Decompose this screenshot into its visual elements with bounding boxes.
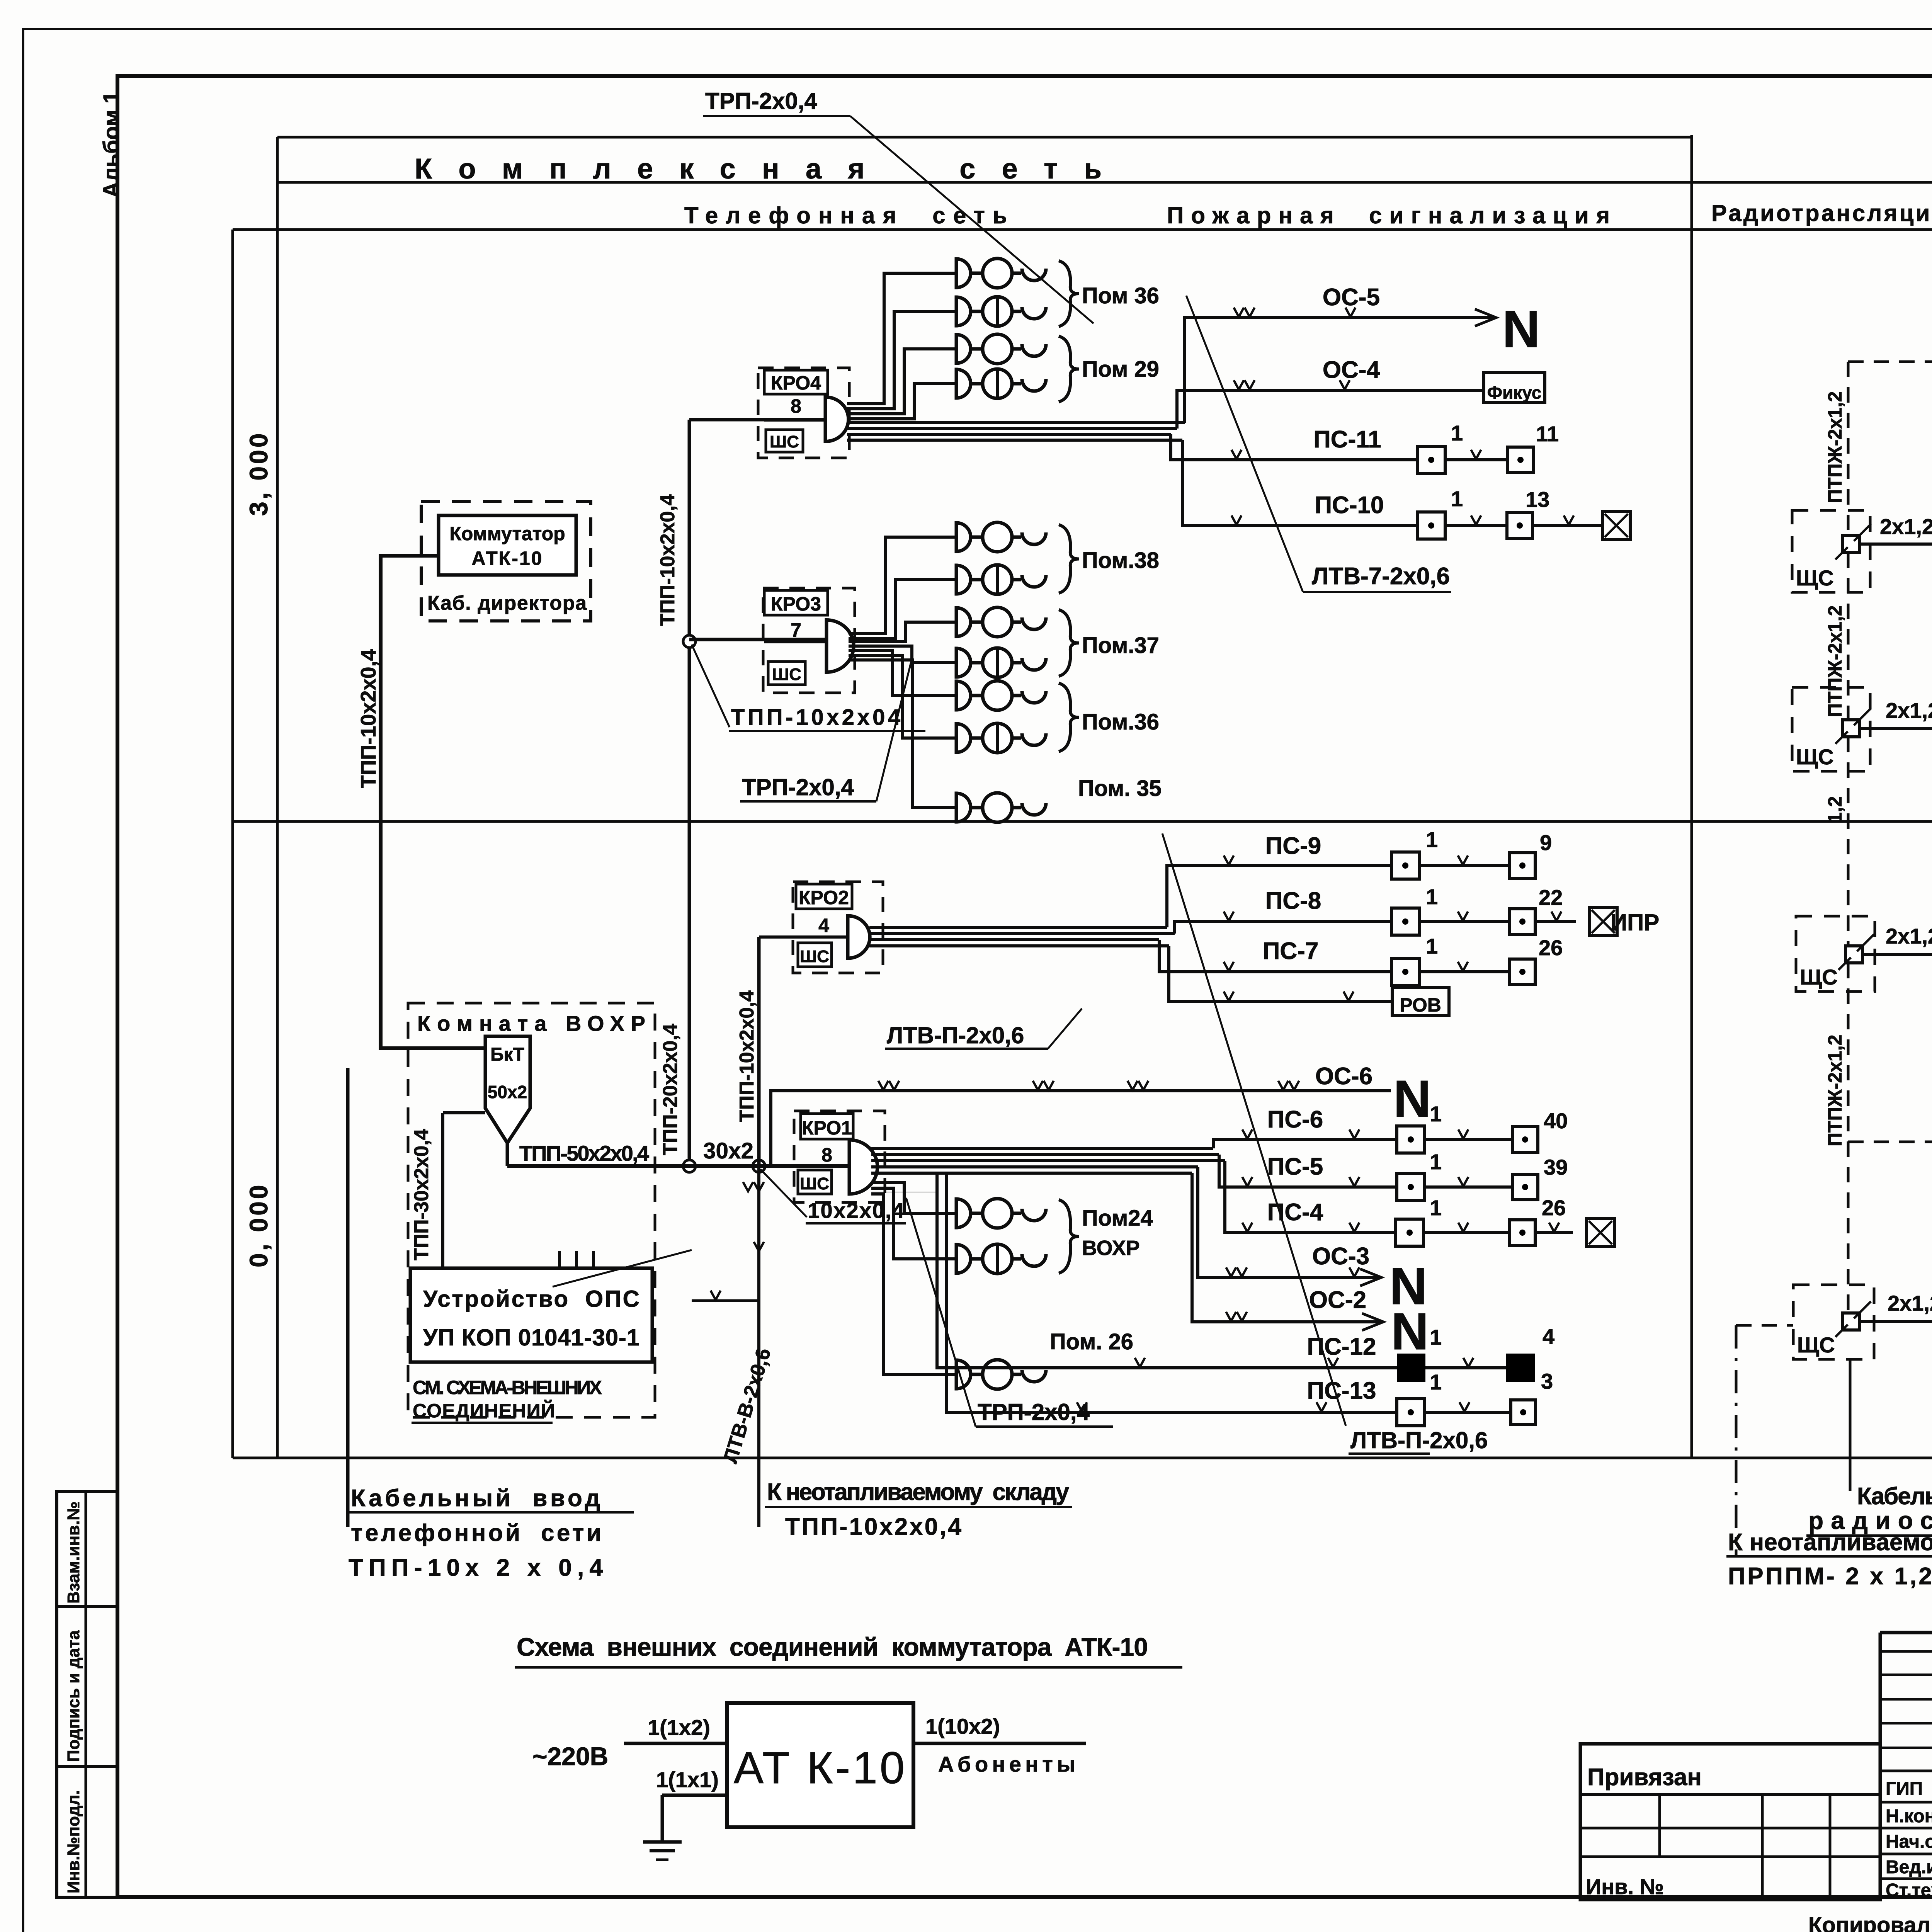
svg-text:ШС: ШС [772, 665, 801, 684]
svg-text:4: 4 [818, 915, 829, 936]
svg-text:Пом.38: Пом.38 [1082, 548, 1159, 573]
svg-text:ПТПЖ-2х1,2: ПТПЖ-2х1,2 [1824, 391, 1846, 503]
svg-text:ШС: ШС [800, 947, 829, 966]
svg-text:1(10х2): 1(10х2) [925, 1714, 1000, 1738]
svg-text:ТПП-10х2х0,4: ТПП-10х2х0,4 [356, 649, 380, 788]
svg-text:ВОХР: ВОХР [1082, 1236, 1140, 1260]
svg-text:ОС-2: ОС-2 [1309, 1287, 1366, 1313]
svg-text:Коммутатор: Коммутатор [449, 523, 565, 544]
svg-text:Каб. директора: Каб. директора [427, 592, 587, 614]
svg-text:ШС: ШС [800, 1174, 829, 1193]
svg-text:Пом.37: Пом.37 [1082, 633, 1159, 658]
svg-text:ПС-4: ПС-4 [1267, 1199, 1323, 1226]
svg-text:13: 13 [1526, 487, 1549, 512]
svg-text:ПС-12: ПС-12 [1307, 1333, 1376, 1360]
svg-text:РОВ: РОВ [1400, 994, 1441, 1016]
svg-text:Инв. №: Инв. № [1586, 1874, 1664, 1899]
svg-text:1: 1 [1430, 1150, 1442, 1174]
svg-text:Инв.№подл.: Инв.№подл. [64, 1790, 83, 1893]
svg-text:N: N [1391, 1302, 1429, 1361]
svg-text:Альбом 1: Альбом 1 [99, 91, 124, 198]
svg-text:КРО2: КРО2 [799, 887, 849, 908]
svg-text:ЩС: ЩС [1800, 965, 1838, 989]
svg-text:Пом.36: Пом.36 [1082, 709, 1159, 735]
svg-text:Пом 36: Пом 36 [1082, 283, 1159, 308]
svg-text:ЛТВ-П-2х0,6: ЛТВ-П-2х0,6 [1350, 1427, 1488, 1453]
svg-text:Вед.инж.: Вед.инж. [1886, 1857, 1932, 1878]
svg-text:Нач.отд.: Нач.отд. [1886, 1832, 1932, 1852]
svg-text:1,2: 1,2 [1824, 796, 1846, 823]
svg-text:ПТПЖ-2х1,2: ПТПЖ-2х1,2 [1824, 605, 1846, 717]
svg-text:ОС-6: ОС-6 [1315, 1063, 1372, 1090]
svg-text:30х2: 30х2 [703, 1138, 753, 1163]
svg-text:2х1,2: 2х1,2 [1886, 924, 1932, 948]
svg-text:ПРППМ- 2 х 1,2: ПРППМ- 2 х 1,2 [1728, 1563, 1932, 1590]
svg-text:N: N [1393, 1070, 1431, 1128]
svg-text:1(1х1): 1(1х1) [656, 1767, 719, 1792]
svg-text:ТПП-10х2х0,4: ТПП-10х2х0,4 [656, 494, 679, 626]
svg-text:ОС-4: ОС-4 [1323, 357, 1380, 383]
svg-text:ТПП-20х2х0,4: ТПП-20х2х0,4 [659, 1024, 682, 1155]
svg-text:40: 40 [1544, 1109, 1568, 1133]
svg-text:СМ. СХЕМА-ВНЕШНИХ: СМ. СХЕМА-ВНЕШНИХ [413, 1377, 602, 1398]
svg-text:11: 11 [1536, 422, 1559, 446]
svg-text:Пом. 35: Пом. 35 [1078, 776, 1162, 801]
svg-text:50х2: 50х2 [488, 1082, 527, 1102]
svg-text:26: 26 [1542, 1196, 1566, 1220]
svg-text:2х1,2: 2х1,2 [1880, 514, 1932, 539]
svg-text:ТПП-30х2х0,4: ТПП-30х2х0,4 [410, 1129, 433, 1260]
svg-text:~220В: ~220В [532, 1742, 608, 1770]
svg-text:N: N [1502, 300, 1540, 358]
svg-text:ТПП-50х2х0,4: ТПП-50х2х0,4 [519, 1141, 649, 1165]
svg-text:Пом24: Пом24 [1082, 1206, 1153, 1231]
svg-text:БкТ: БкТ [490, 1044, 524, 1065]
svg-text:ОС-3: ОС-3 [1312, 1243, 1369, 1270]
svg-text:Ст.техн.: Ст.техн. [1886, 1880, 1932, 1901]
svg-text:Комплексная сеть: Комплексная сеть [415, 153, 1113, 185]
svg-text:1: 1 [1430, 1325, 1442, 1349]
svg-text:9: 9 [1540, 830, 1552, 855]
svg-text:ПС-5: ПС-5 [1267, 1153, 1323, 1180]
svg-text:Телефонная сеть: Телефонная сеть [684, 202, 1007, 228]
svg-text:1: 1 [1430, 1370, 1442, 1394]
svg-text:ПС-11: ПС-11 [1313, 426, 1381, 453]
svg-text:1: 1 [1426, 934, 1438, 958]
svg-text:Н.контр.: Н.контр. [1886, 1806, 1932, 1827]
svg-text:Фикус: Фикус [1487, 383, 1542, 403]
svg-text:КРО1: КРО1 [802, 1117, 852, 1139]
svg-text:ЛТВ-7-2х0,6: ЛТВ-7-2х0,6 [1312, 563, 1450, 590]
svg-text:ГИП: ГИП [1886, 1779, 1923, 1799]
svg-text:Пом 29: Пом 29 [1082, 357, 1159, 382]
svg-text:2х1,2: 2х1,2 [1888, 1291, 1932, 1315]
svg-text:1(1х2): 1(1х2) [648, 1715, 710, 1740]
svg-text:1: 1 [1426, 884, 1438, 909]
svg-text:АТК-10: АТК-10 [472, 548, 543, 569]
svg-text:ПС-6: ПС-6 [1267, 1106, 1323, 1133]
svg-text:1: 1 [1430, 1196, 1442, 1220]
svg-text:ЛТВ-П-2х0,6: ЛТВ-П-2х0,6 [887, 1022, 1024, 1048]
svg-text:Кабельный ввод: Кабельный ввод [1857, 1483, 1932, 1510]
svg-text:ТРП-2х0,4: ТРП-2х0,4 [705, 88, 818, 114]
svg-text:ШС: ШС [770, 432, 799, 451]
svg-text:4: 4 [1543, 1324, 1554, 1349]
svg-text:1: 1 [1451, 486, 1463, 511]
svg-text:8: 8 [821, 1144, 832, 1166]
svg-text:К неотапливаемому складу: К неотапливаемому складу [767, 1479, 1070, 1505]
svg-text:ПС-9: ПС-9 [1265, 833, 1321, 859]
svg-text:ОС-5: ОС-5 [1323, 284, 1380, 311]
svg-text:1: 1 [1430, 1102, 1442, 1126]
svg-text:АТ К-10: АТ К-10 [734, 1743, 907, 1793]
svg-text:Пом. 26: Пом. 26 [1050, 1329, 1133, 1354]
svg-text:Взам.инв.№: Взам.инв.№ [64, 1502, 83, 1604]
svg-text:КРО3: КРО3 [771, 593, 821, 615]
svg-text:3: 3 [1541, 1369, 1553, 1393]
svg-text:КРО4: КРО4 [771, 372, 821, 394]
svg-text:ЩС: ЩС [1796, 566, 1834, 590]
svg-text:Привязан: Привязан [1587, 1764, 1702, 1791]
svg-text:ПТПЖ-2х1,2: ПТПЖ-2х1,2 [1824, 1035, 1846, 1146]
svg-text:УП КОП 01041-30-1: УП КОП 01041-30-1 [423, 1325, 639, 1350]
svg-text:ПС-10: ПС-10 [1315, 492, 1384, 519]
svg-text:ЩС: ЩС [1796, 745, 1834, 769]
svg-text:26: 26 [1539, 935, 1563, 960]
svg-text:ТПП-10х2х0,4: ТПП-10х2х0,4 [785, 1514, 962, 1540]
svg-text:ПС-8: ПС-8 [1265, 888, 1321, 914]
svg-text:1: 1 [1451, 421, 1463, 445]
svg-text:ЩС: ЩС [1797, 1333, 1835, 1357]
svg-text:ПС-7: ПС-7 [1263, 938, 1318, 964]
svg-text:3, 000: 3, 000 [244, 431, 273, 516]
svg-text:2х1,2: 2х1,2 [1886, 698, 1932, 723]
svg-text:Схема внешних соединений ко: Схема внешних соединений коммутатора АТК… [517, 1633, 1148, 1661]
svg-text:0, 000: 0, 000 [244, 1183, 273, 1268]
svg-text:7: 7 [791, 619, 801, 641]
svg-text:8: 8 [791, 395, 801, 417]
svg-text:39: 39 [1544, 1155, 1568, 1179]
svg-text:Подпись и дата: Подпись и дата [64, 1630, 83, 1762]
svg-text:22: 22 [1539, 885, 1563, 910]
svg-text:ПС-13: ПС-13 [1307, 1378, 1376, 1404]
svg-text:телефонной сети: телефонной сети [351, 1520, 601, 1546]
svg-text:ТПП-10х2х0,4: ТПП-10х2х0,4 [736, 990, 758, 1122]
svg-text:Устройство ОПС: Устройство ОПС [423, 1286, 639, 1312]
svg-text:Копировал: Копировал [1808, 1913, 1930, 1932]
svg-text:К неотапливаемому складу: К неотапливаемому складу [1728, 1529, 1932, 1556]
svg-text:ТРП-2х0,4: ТРП-2х0,4 [742, 774, 854, 800]
svg-text:ИПР: ИПР [1611, 910, 1659, 935]
svg-text:Кабельный ввод: Кабельный ввод [351, 1485, 600, 1512]
svg-text:1: 1 [1426, 827, 1438, 852]
svg-text:ТПП-10х2х04: ТПП-10х2х04 [731, 705, 900, 730]
